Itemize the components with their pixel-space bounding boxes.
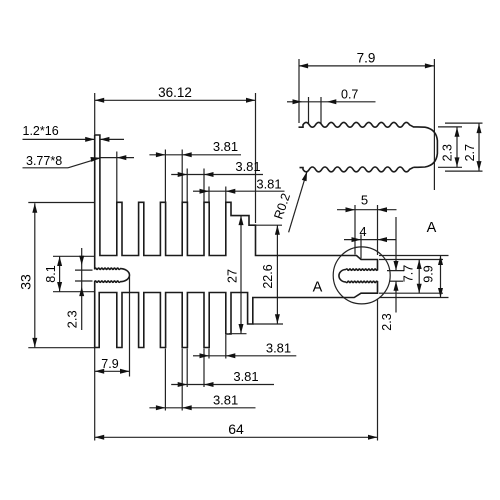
svg-text:3.81: 3.81 <box>235 159 260 174</box>
svg-text:3.81: 3.81 <box>266 341 291 356</box>
svg-text:3.81: 3.81 <box>213 392 238 407</box>
svg-text:A: A <box>313 280 323 296</box>
svg-text:33: 33 <box>18 274 34 290</box>
svg-text:2.7: 2.7 <box>463 144 477 161</box>
svg-text:5: 5 <box>361 193 368 208</box>
svg-text:27: 27 <box>226 269 240 283</box>
svg-text:3.81: 3.81 <box>256 176 281 191</box>
svg-text:1.2*16: 1.2*16 <box>23 124 59 138</box>
svg-text:4: 4 <box>359 224 366 239</box>
svg-text:36.12: 36.12 <box>158 85 192 100</box>
svg-text:7.9: 7.9 <box>357 50 376 65</box>
svg-text:7.9: 7.9 <box>101 357 118 371</box>
svg-text:3.81: 3.81 <box>233 369 258 384</box>
svg-text:9.9: 9.9 <box>422 265 436 282</box>
svg-text:3.77*8: 3.77*8 <box>26 154 62 168</box>
svg-text:0.7: 0.7 <box>341 88 358 102</box>
svg-text:A: A <box>427 220 437 236</box>
svg-text:2.3: 2.3 <box>65 310 80 328</box>
svg-text:2.3: 2.3 <box>440 144 454 161</box>
svg-text:8.1: 8.1 <box>44 265 58 282</box>
svg-text:2.3: 2.3 <box>380 313 394 330</box>
svg-text:3.81: 3.81 <box>213 139 238 154</box>
svg-text:7.7: 7.7 <box>402 265 416 282</box>
svg-text:64: 64 <box>228 421 244 437</box>
svg-text:22.6: 22.6 <box>261 264 275 288</box>
